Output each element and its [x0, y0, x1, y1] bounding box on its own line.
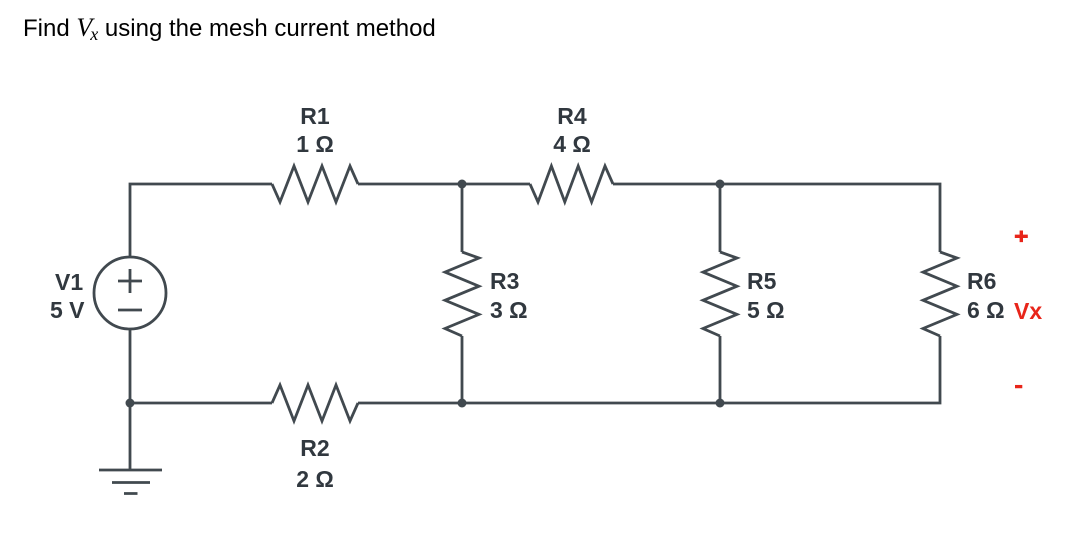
label R2 value 2 ohm	[296, 468, 334, 491]
label R1 value 1 ohm	[296, 133, 334, 156]
label V1	[55, 271, 83, 294]
node: top junction R3	[458, 180, 467, 189]
resistor R5 (vertical)	[719, 184, 722, 252]
label R4 value 4 ohm	[553, 133, 591, 156]
wire: bottom-left segment	[130, 402, 272, 405]
wire: top middle segment R1 to R4	[358, 183, 530, 186]
label R3 value 3 ohm	[490, 299, 528, 322]
resistor R4	[530, 166, 613, 202]
resistor R6 (vertical)	[923, 252, 957, 336]
node: top junction R5	[716, 180, 725, 189]
resistor R2	[272, 385, 358, 421]
label R6	[967, 270, 996, 293]
wire: right bottom segment	[358, 336, 940, 403]
label R3	[490, 270, 519, 293]
resistor R3 (vertical)	[461, 184, 464, 252]
label R1	[300, 105, 329, 128]
label R2	[300, 437, 329, 460]
wire: source bottom lead to ground	[129, 329, 132, 470]
red minus annotation for Vx	[1015, 385, 1022, 388]
label R5 value 5 ohm	[747, 299, 785, 322]
title	[23, 13, 436, 43]
voltage source V1 circle	[94, 257, 166, 329]
node: bottom-left junction	[126, 399, 135, 408]
node: bottom junction R5	[716, 399, 725, 408]
red plus annotation for Vx	[1015, 231, 1028, 243]
node: bottom junction R3	[458, 399, 467, 408]
label R6 value 6 ohm	[967, 299, 1005, 322]
resistor R1	[272, 166, 358, 202]
V1 plus symbol	[118, 269, 142, 293]
V1 minus symbol	[118, 309, 142, 312]
label V1 value 5 V	[50, 299, 85, 322]
label R5	[747, 270, 776, 293]
ground	[99, 470, 162, 494]
label Vx (red)	[1014, 300, 1042, 323]
wire: top-left segment	[130, 184, 272, 257]
wire: top right segment to right corner	[613, 184, 940, 252]
label R4	[557, 105, 586, 128]
